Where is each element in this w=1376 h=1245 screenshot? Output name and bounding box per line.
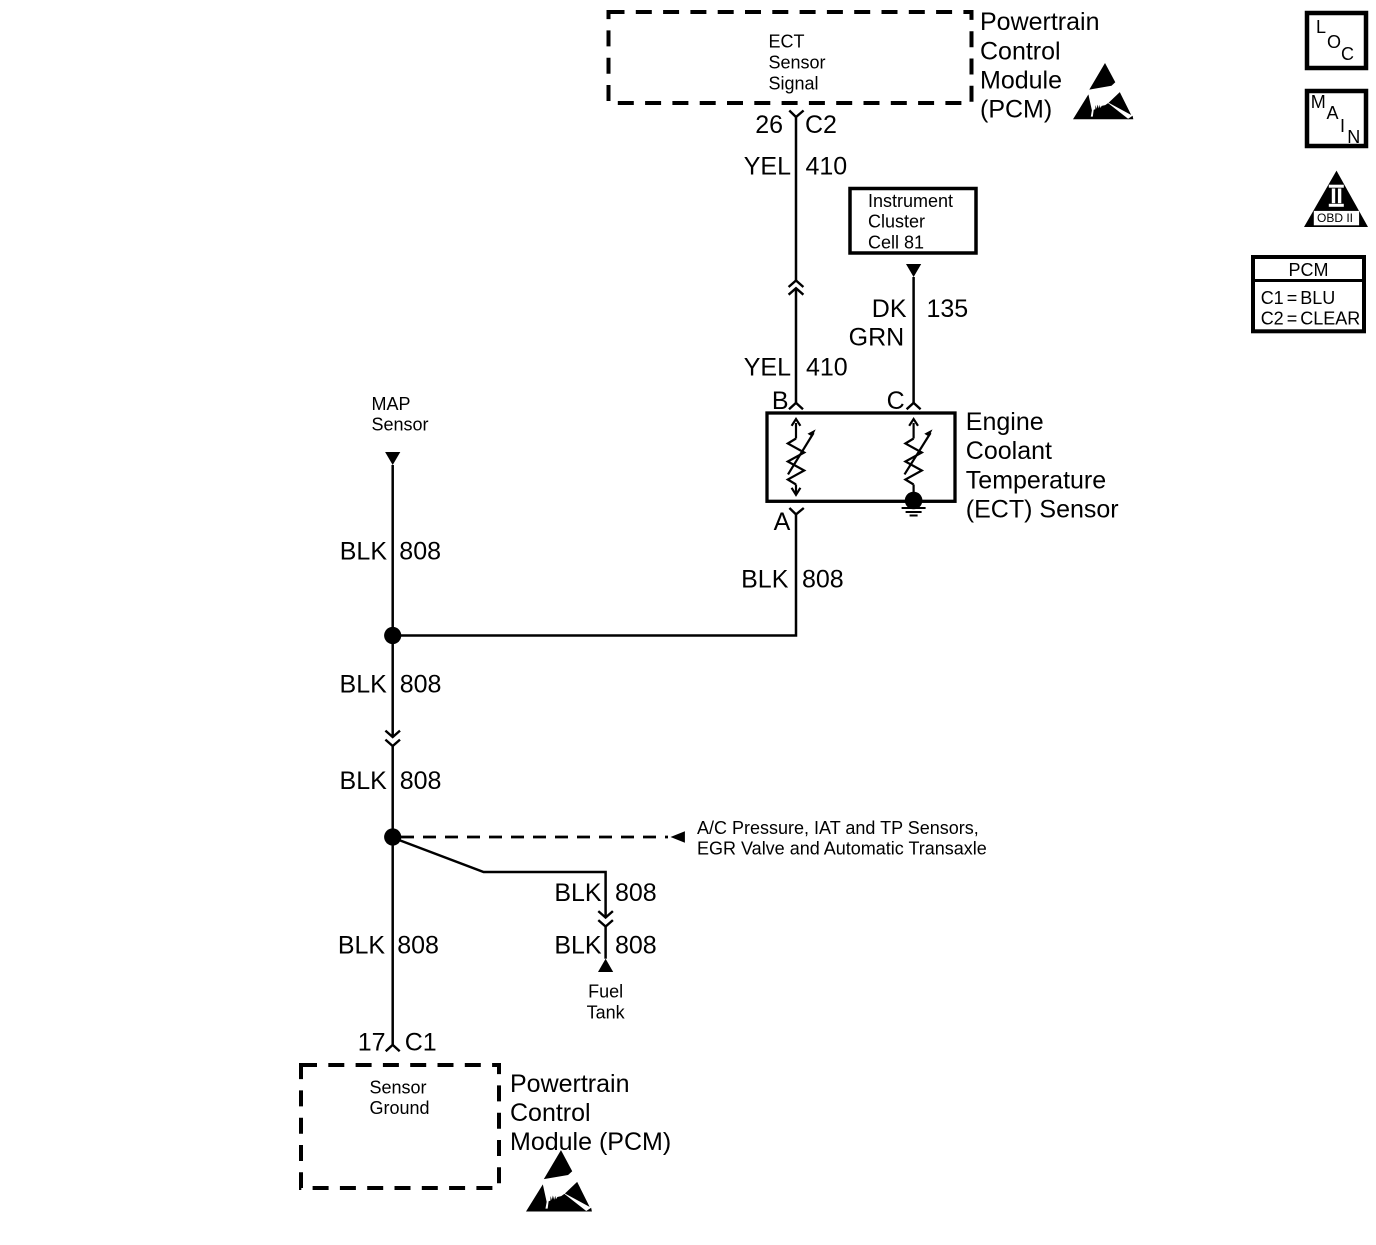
svg-text:BLK: BLK [340, 767, 388, 795]
Instrument Cluster box [850, 189, 976, 254]
svg-text:808: 808 [802, 565, 844, 593]
svg-text:L: L [1316, 17, 1326, 37]
svg-text:808: 808 [397, 931, 439, 959]
svg-text:N: N [1347, 127, 1360, 147]
ESD symbol (bottom PCM) [526, 1150, 592, 1211]
from-MAP arrow (solid triangle down) [385, 452, 400, 465]
LOC box [1307, 13, 1366, 68]
svg-text:410: 410 [806, 153, 848, 181]
svg-text:I: I [1340, 116, 1345, 136]
pin B [789, 403, 803, 409]
svg-text:A: A [1327, 103, 1339, 123]
svg-text:BLK: BLK [340, 538, 388, 566]
svg-text:808: 808 [399, 538, 441, 566]
connector pin 26/C2 [789, 111, 803, 118]
svg-text:Instrument: Instrument [868, 191, 953, 211]
junction dot on box edge [905, 492, 923, 510]
svg-text:Signal: Signal [769, 74, 819, 94]
junction 2 [384, 828, 401, 845]
from-cluster arrow (solid triangle down) [906, 264, 921, 277]
thermistor C-gnd (right) [905, 419, 921, 499]
svg-text:GRN: GRN [849, 324, 905, 352]
svg-text:C2=CLEAR: C2=CLEAR [1261, 309, 1361, 329]
svg-text:Module: Module [980, 67, 1062, 95]
svg-text:YEL: YEL [744, 153, 791, 181]
svg-text:Engine: Engine [966, 408, 1044, 436]
wire BLK 808 (to junction 2) [391, 746, 394, 837]
svg-text:C1: C1 [405, 1028, 437, 1056]
wire (branch lower) [604, 927, 607, 959]
pin A [789, 508, 803, 514]
svg-text:YEL: YEL [744, 354, 791, 382]
wire BLK 808 (junction 2 to C1) [391, 837, 394, 1045]
svg-text:B: B [772, 387, 789, 415]
dashed reference line [401, 836, 668, 839]
PCM (top) dashed box [609, 12, 972, 103]
svg-text:A/C Pressure, IAT and TP Senso: A/C Pressure, IAT and TP Sensors, [697, 818, 979, 838]
svg-text:Module (PCM): Module (PCM) [510, 1128, 671, 1156]
thermistor B-A (left) [788, 419, 804, 495]
svg-text:ECT: ECT [769, 32, 805, 52]
wire YEL 410 (upper segment) [795, 117, 798, 281]
wire BLK 808 (junction 1 down) [391, 636, 394, 738]
svg-text:Cell 81: Cell 81 [868, 232, 924, 252]
svg-text:O: O [1327, 32, 1341, 52]
svg-text:BLK: BLK [340, 671, 388, 699]
pin 17/C1 [386, 1045, 400, 1051]
svg-text:135: 135 [927, 295, 969, 323]
thermistor variable arrow (right) [905, 433, 931, 474]
svg-text:808: 808 [400, 767, 442, 795]
ESD symbol (top PCM) [1073, 63, 1133, 119]
PCM connector legend box [1253, 257, 1364, 331]
svg-text:808: 808 [615, 879, 657, 907]
svg-text:OBD II: OBD II [1317, 211, 1353, 225]
svg-text:Fuel: Fuel [588, 982, 623, 1002]
svg-text:Tank: Tank [587, 1002, 626, 1022]
svg-text:Sensor: Sensor [372, 415, 429, 435]
svg-text:BLK: BLK [338, 931, 386, 959]
pin C [907, 403, 921, 409]
svg-text:C: C [887, 387, 905, 415]
svg-text:410: 410 [806, 354, 848, 382]
svg-text:Cluster: Cluster [868, 212, 925, 232]
wire BLK 808 (A to junction) [393, 514, 796, 635]
svg-text:808: 808 [615, 931, 657, 959]
svg-text:BLK: BLK [554, 931, 602, 959]
svg-text:(PCM): (PCM) [980, 96, 1052, 124]
svg-text:Sensor: Sensor [769, 53, 826, 73]
thermistor variable arrow (left) [788, 433, 814, 474]
svg-text:C2: C2 [805, 111, 837, 139]
svg-text:Powertrain: Powertrain [510, 1070, 630, 1098]
svg-text:Coolant: Coolant [966, 437, 1052, 465]
svg-text:BLK: BLK [741, 565, 789, 593]
svg-text:PCM: PCM [1289, 260, 1329, 280]
ECT sensor box [767, 413, 955, 501]
MAIN box [1307, 91, 1366, 146]
branch wire to fuel tank [395, 839, 606, 918]
svg-text:26: 26 [755, 111, 783, 139]
svg-text:Ground: Ground [370, 1098, 430, 1118]
wire DK GRN 135 [912, 277, 915, 403]
wire-break chevrons (branch) [598, 911, 613, 917]
svg-text:Powertrain: Powertrain [980, 8, 1100, 36]
svg-text:(ECT) Sensor: (ECT) Sensor [966, 496, 1119, 524]
PCM (bottom) dashed box [301, 1065, 499, 1188]
wire YEL 410 (lower segment) [795, 288, 798, 403]
svg-text:EGR Valve and Automatic Transa: EGR Valve and Automatic Transaxle [697, 838, 987, 858]
svg-text:Control: Control [510, 1099, 591, 1127]
svg-text:A: A [774, 508, 791, 536]
wire-break chevrons (YEL) [789, 281, 804, 288]
svg-text:808: 808 [400, 671, 442, 699]
ground (inside ECT) [902, 508, 926, 516]
wire BLK 808 (MAP to junction 1) [391, 465, 394, 636]
svg-text:17: 17 [358, 1028, 386, 1056]
svg-text:BLK: BLK [554, 879, 602, 907]
svg-text:MAP: MAP [372, 394, 411, 414]
wire-break chevrons (BLK) [385, 731, 400, 737]
svg-text:M: M [1311, 92, 1326, 112]
to-fuel-tank arrow (solid triangle up) [598, 959, 613, 972]
junction 1 [384, 627, 401, 644]
OBD II symbol [1304, 171, 1368, 227]
reference arrowhead [671, 831, 685, 843]
svg-text:Temperature: Temperature [966, 466, 1106, 494]
svg-text:Control: Control [980, 37, 1061, 65]
svg-text:C: C [1341, 44, 1354, 64]
svg-text:Sensor: Sensor [370, 1077, 427, 1097]
svg-text:DK: DK [872, 295, 907, 323]
